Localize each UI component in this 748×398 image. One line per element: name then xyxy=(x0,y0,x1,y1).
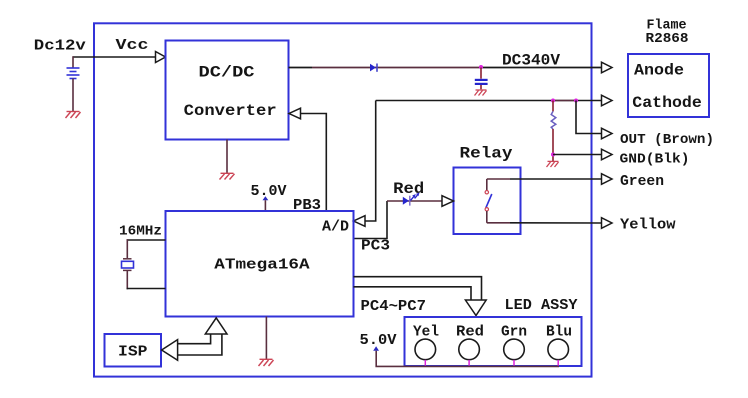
wire cathode line xyxy=(376,100,602,102)
LED blue xyxy=(548,339,569,360)
wire capacitor to anode arrow xyxy=(481,67,602,69)
svg-text:5.0V: 5.0V xyxy=(360,333,397,349)
svg-text:5.0V: 5.0V xyxy=(251,184,287,200)
svg-text:LED ASSY: LED ASSY xyxy=(505,298,578,314)
svg-text:A/D: A/D xyxy=(322,220,349,236)
svg-text:Red: Red xyxy=(393,180,424,198)
junction OUT branch xyxy=(574,99,578,103)
wire PC3 from ATmega xyxy=(354,201,388,239)
wire DC/DC to ground xyxy=(226,140,228,174)
svg-text:Yellow: Yellow xyxy=(620,217,676,233)
bus arrowhead down xyxy=(465,300,486,316)
wire cathode down to A/D xyxy=(365,101,376,222)
wire OUT branch xyxy=(576,101,602,134)
svg-text:Red: Red xyxy=(456,325,484,341)
LED green xyxy=(504,339,525,360)
LED red xyxy=(459,339,480,360)
svg-text:Grn: Grn xyxy=(501,325,527,341)
junction GND branch xyxy=(551,153,555,157)
svg-text:ATmega16A: ATmega16A xyxy=(214,257,309,274)
svg-text:Dc12v: Dc12v xyxy=(34,37,86,54)
svg-text:Vcc: Vcc xyxy=(116,37,149,54)
ground ATmega xyxy=(259,359,274,366)
junction at capacitor xyxy=(479,65,483,69)
svg-text:Converter: Converter xyxy=(184,102,277,120)
power arrow 5.0V xyxy=(263,196,269,200)
wire crystal bottom xyxy=(126,271,128,289)
power arrow 5.0V bottom xyxy=(373,346,379,351)
ATmega16A box U2 xyxy=(166,211,354,317)
svg-text:Relay: Relay xyxy=(460,145,513,163)
wire cathode dark segment xyxy=(553,100,576,102)
ISP box J1 xyxy=(105,334,162,367)
terminal arrow Anode xyxy=(602,62,613,73)
terminal arrow Cathode xyxy=(602,95,613,106)
svg-text:ISP: ISP xyxy=(118,344,148,361)
capacitor C1 xyxy=(480,68,482,79)
wire GND branch xyxy=(553,154,602,156)
terminal arrow GND xyxy=(602,149,613,160)
wire PC3 to relay xyxy=(387,200,442,202)
svg-text:Anode: Anode xyxy=(634,61,684,79)
terminal arrow Yellow xyxy=(602,218,613,229)
terminal arrow Green xyxy=(602,174,613,185)
wire PB3 feedback xyxy=(301,114,327,212)
arrow into DC/DC right xyxy=(289,108,301,119)
resistor R1 xyxy=(552,101,554,112)
svg-text:OUT (Brown): OUT (Brown) xyxy=(620,132,714,148)
svg-text:R2868: R2868 xyxy=(646,31,689,47)
ISP arrowhead left xyxy=(162,340,178,361)
svg-text:Yel: Yel xyxy=(413,325,439,341)
ground battery xyxy=(66,112,81,119)
junction resistor top xyxy=(551,99,555,103)
battery B1 xyxy=(67,68,80,79)
svg-text:Green: Green xyxy=(620,174,664,190)
ISP bus hollow arrow xyxy=(178,334,222,355)
svg-text:16MHz: 16MHz xyxy=(119,224,162,240)
wire battery top xyxy=(72,56,74,67)
wire relay common to Green xyxy=(487,178,510,180)
ground DC/DC xyxy=(220,173,235,179)
wire battery to ground xyxy=(72,79,74,112)
relay box K1 xyxy=(454,168,521,235)
LED cathode ticks xyxy=(425,360,558,366)
wire DC340V xyxy=(289,67,313,69)
svg-text:Blu: Blu xyxy=(546,325,572,341)
bus PC4~PC7 double line xyxy=(354,277,482,300)
arrow into relay xyxy=(442,196,454,207)
flame sensor box xyxy=(628,54,709,117)
svg-text:Cathode: Cathode xyxy=(632,94,702,112)
DC/DC converter box U1 xyxy=(166,41,289,140)
LED assy box xyxy=(405,317,582,366)
crystal Y1 xyxy=(123,258,132,260)
diode D1 xyxy=(370,64,376,72)
svg-text:DC/DC: DC/DC xyxy=(199,64,255,82)
svg-text:GND(Blk): GND(Blk) xyxy=(620,151,690,167)
terminal arrow OUT xyxy=(602,128,613,139)
ground capacitor xyxy=(475,90,487,96)
ground resistor xyxy=(547,161,559,167)
wire crystal top xyxy=(127,239,166,241)
arrow into ATmega A/D xyxy=(354,216,366,227)
relay switch xyxy=(486,179,488,191)
arrow into DC/DC left xyxy=(156,52,166,63)
wire relay NO to Yellow xyxy=(487,222,510,224)
outer schematic border xyxy=(94,23,592,376)
ISP arrowhead up xyxy=(205,318,227,334)
svg-text:PC3: PC3 xyxy=(361,239,390,255)
svg-text:DC340V: DC340V xyxy=(502,51,561,69)
wire ATmega ground xyxy=(265,317,267,360)
LED yellow xyxy=(415,339,436,360)
LED red D2 xyxy=(403,197,409,205)
svg-text:PC4~PC7: PC4~PC7 xyxy=(361,299,427,315)
wire 5.0V to LED bus xyxy=(376,351,559,367)
wire Vcc from battery to DC/DC xyxy=(73,56,156,58)
